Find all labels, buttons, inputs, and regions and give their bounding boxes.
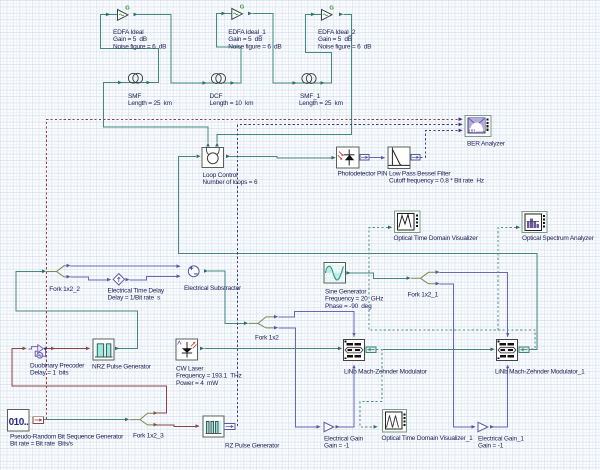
svg-text:Cutoff frequency = 0.8 * Bit r: Cutoff frequency = 0.8 * Bit rate Hz — [389, 178, 484, 185]
port Sine Generator out — [347, 271, 351, 275]
NRZ Pulse Generator — [93, 339, 114, 360]
svg-text:LiNb Mach-Zehnder Modulator_1: LiNb Mach-Zehnder Modulator_1 — [495, 369, 585, 376]
Optical Time Domain Visualizer_1 — [383, 410, 407, 433]
port Subtractor in1 — [177, 264, 181, 268]
svg-text:NRZ Pulse Generator: NRZ Pulse Generator — [92, 364, 152, 371]
port OTDV in — [388, 226, 392, 230]
Photodetector PIN — [337, 147, 360, 168]
svg-text:Pseudo-Random Bit Sequence Gen: Pseudo-Random Bit Sequence Generator — [10, 434, 124, 441]
svg-text:Noise figure = 6 dB: Noise figure = 6 dB — [318, 43, 371, 50]
port Subtractor out — [204, 269, 208, 273]
wire SMF1 output to EDFA2 input — [306, 15, 332, 84]
wire MZM_1 output to Loop Control input — [179, 157, 538, 350]
svg-text:Gain = -1: Gain = -1 — [324, 443, 350, 450]
svg-text:Frequency = 193.1 THz: Frequency = 193.1 THz — [176, 373, 242, 380]
svg-text:SMF: SMF — [128, 93, 141, 100]
svg-text:Photodetector PIN: Photodetector PIN — [338, 171, 388, 178]
dashed wire Optical Time Domain Visualizer to Optical Spectrum Analyzer — [369, 228, 535, 349]
port BER in2 — [459, 123, 463, 127]
port Fork1x2 out1 — [274, 315, 278, 319]
CW Laser — [176, 339, 198, 360]
svg-text:Gain = 5 dB: Gain = 5 dB — [113, 36, 147, 43]
Optical Time Domain Visualizer — [395, 211, 421, 233]
svg-text:Electrical Time Delay: Electrical Time Delay — [108, 288, 165, 295]
svg-text:Low Pass Bessel Filter: Low Pass Bessel Filter — [389, 171, 451, 178]
port Fork1x2_2 out1 — [67, 264, 71, 268]
RZ output pipe — [224, 424, 235, 430]
Sine Generator — [324, 263, 346, 284]
port Fork1x2_2 in — [42, 270, 46, 274]
dashed wire PRBS output to BER Analyzer input 1 — [47, 119, 460, 419]
port OSA in — [516, 226, 520, 230]
wire Fork1x2 top out to MZM1 top electrode — [279, 312, 355, 338]
port EDFA out — [134, 13, 138, 17]
port EDFA1 out — [248, 12, 252, 16]
Electrical Time Delay — [113, 274, 124, 285]
port Loop Control top1 — [206, 143, 210, 147]
Low Pass Bessel Filter — [388, 147, 410, 168]
port MZM1 optical in — [338, 347, 342, 351]
Loop Control — [202, 148, 224, 168]
port EDFA in — [106, 13, 110, 17]
RZ Pulse Generator — [203, 416, 224, 437]
wire Electrical Subtractor output to Fork 1x2 input — [208, 271, 245, 323]
port EDFA2 out — [339, 13, 343, 17]
port DCF in — [203, 81, 207, 85]
port Fork1x2_3 out1 — [154, 411, 158, 415]
svg-text:Number of loops = 6: Number of loops = 6 — [203, 179, 258, 186]
port DCF out — [231, 81, 235, 85]
svg-text:Loop Control: Loop Control — [203, 172, 239, 179]
port Duobinary Precoder in — [23, 347, 27, 351]
MZM_1 output pipe — [519, 347, 529, 353]
svg-text:RZ Pulse Generator: RZ Pulse Generator — [225, 443, 280, 450]
wire Electrical Gain output to MZM1 bottom electrode — [339, 366, 355, 427]
port Electrical Gain in — [317, 425, 321, 429]
LiNb Mach-Zehnder Modulator — [344, 340, 365, 361]
svg-text:Duobinary Precoder: Duobinary Precoder — [30, 363, 85, 370]
svg-text:Length = 10 km: Length = 10 km — [210, 100, 254, 107]
port EDFA1 in — [222, 12, 226, 16]
svg-text:Bit rate = Bit rate Bits/s: Bit rate = Bit rate Bits/s — [10, 441, 74, 448]
port Time Delay in — [107, 278, 111, 282]
wire Fork1x2_3 bottom out to RZ Pulse Generator input — [156, 425, 197, 426]
Fork 1x2_1 icon — [411, 272, 436, 284]
svg-text:Fork 1x2_1: Fork 1x2_1 — [408, 292, 439, 299]
svg-text:Delay = 1 bits: Delay = 1 bits — [30, 370, 69, 377]
BER Analyzer — [465, 116, 491, 137]
svg-text:010..: 010.. — [9, 417, 29, 428]
port MZM1 top electrode — [352, 333, 355, 337]
port NRZ out — [115, 347, 119, 351]
dashed wire MZM1 output to Optical Time Domain Visualizer_1 — [360, 350, 382, 427]
wire MZM1 output to MZM_1 input — [383, 349, 491, 351]
wire Time Delay output to Subtractor input 2 — [130, 276, 177, 279]
port Fork1x2 out2 — [274, 326, 278, 330]
port Loop Control out — [226, 155, 230, 159]
svg-text:EDFA Ideal_1: EDFA Ideal_1 — [228, 29, 266, 36]
svg-text:G: G — [240, 4, 245, 10]
PRBS output pipe — [33, 417, 44, 424]
port Electrical Gain_1 out — [490, 425, 494, 429]
svg-text:Electrical Gain: Electrical Gain — [324, 436, 363, 443]
svg-text:Gain = 5 dB: Gain = 5 dB — [228, 36, 262, 43]
dashed wire Bessel Filter output to BER Analyzer input 3 — [421, 131, 460, 158]
Duobinary Precoder — [29, 345, 47, 358]
port NRZ in — [86, 347, 90, 351]
port Subtractor in2 — [177, 274, 181, 278]
wire SMF output to EDFA input — [101, 15, 159, 83]
wire Duobinary Precoder output to NRZ input — [44, 348, 87, 350]
svg-text:BER Analyzer: BER Analyzer — [467, 141, 506, 148]
svg-text:SMF_1: SMF_1 — [300, 93, 321, 100]
port MZM_1 bottom electrode — [506, 365, 509, 369]
Electrical Subtractor — [188, 266, 199, 277]
Fork 1x2 icon — [249, 317, 275, 328]
dashed wire branch to Optical Spectrum Analyzer — [498, 228, 516, 331]
port BER in1 — [459, 117, 463, 121]
port SMF in — [118, 81, 122, 85]
svg-text:EDFA Ideal: EDFA Ideal — [113, 29, 144, 36]
port Fork1x2_3 out2 — [154, 423, 158, 427]
wire Fork1x2_3 top out to Duobinary Precoder input — [12, 349, 167, 414]
wire Electrical Gain_1 output to MZM_1 bottom electrode — [493, 366, 508, 427]
Optical Spectrum Analyzer — [522, 212, 547, 233]
svg-text:EDFA Ideal_2: EDFA Ideal_2 — [318, 29, 356, 36]
wire Photodetector output to Bessel Filter input — [369, 157, 382, 159]
port Fork1x2_2 out2 — [67, 275, 71, 279]
svg-text:G: G — [329, 5, 334, 11]
svg-text:Noise figure = 6 dB: Noise figure = 6 dB — [113, 43, 166, 50]
port Duobinary Precoder out — [51, 347, 55, 351]
port BER in3 — [459, 129, 463, 133]
DCF fiber coil — [211, 74, 225, 84]
svg-text:Fork 1x2_3: Fork 1x2_3 — [133, 433, 164, 440]
svg-text:G: G — [125, 5, 130, 11]
port MZM_1 optical in — [491, 348, 495, 352]
Electrical Gain_1 — [478, 422, 488, 431]
wire EDFA output to DCF input — [138, 15, 233, 84]
port Fork1x2_1 out1 — [436, 270, 440, 274]
Electrical Gain — [324, 422, 334, 431]
wire PRBS output to Fork 1x2_3 input — [44, 419, 126, 421]
Fork 1x2_2 icon — [47, 266, 67, 277]
svg-text:Length = 25 km: Length = 25 km — [299, 100, 343, 107]
port Electrical Gain_1 in — [472, 425, 476, 429]
port CW Laser out — [200, 347, 204, 351]
wire Sine Generator to Fork 1x2_1 input — [346, 273, 407, 278]
svg-text:Gain = -1: Gain = -1 — [478, 443, 504, 450]
svg-text:Frequency = 20 GHz: Frequency = 20 GHz — [325, 296, 383, 303]
port Fork1x2_3 in — [125, 418, 129, 422]
svg-text:LiNb Mach-Zehnder Modulator: LiNb Mach-Zehnder Modulator — [344, 369, 428, 376]
port Time Delay out — [126, 278, 130, 282]
Bessel Filter output pipe — [411, 155, 420, 161]
wire loop-top1 to SMF input — [104, 83, 209, 143]
Pseudo-Random Bit Sequence Generator — [8, 410, 30, 432]
wire CW Laser to MZM1 optical input — [205, 348, 339, 350]
Fork 1x2_3 icon — [130, 413, 154, 425]
SMF_1 fiber coil — [302, 74, 316, 84]
port Fork1x2_1 in — [407, 276, 411, 280]
svg-text:Electrical Gain_1: Electrical Gain_1 — [478, 436, 524, 443]
port Fork1x2_1 out2 — [436, 282, 440, 286]
wire Fork1x2_2 top out to Subtractor input 1 — [71, 265, 177, 267]
port OTDV_1 in — [374, 425, 378, 429]
SMF fiber coil — [128, 73, 142, 83]
port EDFA2 in — [311, 13, 315, 17]
wire Fork1x2_1 top out to MZM_1 top electrode — [439, 272, 507, 337]
LiNb Mach-Zehnder Modulator_1 — [497, 340, 518, 361]
dashed wire RZ Pulse Generator output to BER Analyzer input 2 — [238, 125, 459, 426]
svg-text:Gain = 5 dB: Gain = 5 dB — [318, 36, 352, 43]
wire Fork1x2_1 bottom out to Electrical Gain_1 input — [439, 284, 472, 427]
port Electrical Gain out — [336, 425, 340, 429]
svg-text:Noise figure = 6 dB: Noise figure = 6 dB — [228, 43, 281, 50]
wire EDFA1 output to SMF1 input — [253, 14, 323, 84]
svg-text:Electrical Substractor: Electrical Substractor — [184, 285, 242, 292]
svg-text:Optical Time Domain Visualizer: Optical Time Domain Visualizer — [394, 235, 479, 242]
MZM1 output pipe — [366, 347, 376, 353]
port MZM1 bottom electrode — [352, 365, 355, 369]
wire Loop Control output to Photodetector input — [230, 157, 333, 158]
svg-text:Phase = -90 deg: Phase = -90 deg — [325, 303, 372, 310]
port Bessel Filter in — [381, 156, 385, 160]
port SMF1 out — [321, 81, 325, 85]
svg-text:Length = 25 km: Length = 25 km — [128, 100, 172, 107]
port Fork1x2 in — [244, 321, 248, 325]
wire Fork1x2_2 bottom out to Time Delay input — [71, 277, 108, 280]
port SMF out — [147, 81, 151, 85]
port Photodetector in — [332, 156, 336, 160]
svg-text:Fork 1x2: Fork 1x2 — [255, 335, 279, 342]
EDFA Ideal_2 (amplifier triangle) — [322, 5, 335, 20]
port MZM_1 top electrode — [506, 333, 509, 337]
wire Fork1x2 bottom out to Electrical Gain input — [279, 328, 318, 427]
svg-text:Power = 4 mW: Power = 4 mW — [176, 380, 219, 387]
port SMF1 in — [293, 81, 297, 85]
port Loop Control in — [197, 155, 201, 159]
svg-text:Fork 1x2_2: Fork 1x2_2 — [49, 286, 80, 293]
svg-text:Sine Generator: Sine Generator — [325, 289, 367, 296]
svg-text:Optical Time Domain Visualizer: Optical Time Domain Visualizer_1 — [382, 435, 474, 442]
svg-text:DCF: DCF — [210, 93, 223, 100]
svg-text:Optical Spectrum Analyzer: Optical Spectrum Analyzer — [522, 235, 595, 242]
wire NRZ output to Fork 1x2_2 input — [16, 272, 137, 349]
svg-text:CW Laser: CW Laser — [176, 366, 204, 373]
port RZ in — [196, 424, 200, 428]
EDFA Ideal_1 (amplifier triangle) — [232, 4, 245, 19]
EDFA Ideal (amplifier triangle) — [118, 5, 131, 20]
wire EDFA2 output to loop-top2 — [217, 15, 352, 143]
svg-text:Delay = 1/Bit rate s: Delay = 1/Bit rate s — [108, 295, 162, 302]
Photodetector PIN output pipe — [360, 155, 369, 161]
port Loop Control top2 — [215, 143, 219, 147]
wire DCF output to EDFA1 input — [217, 14, 242, 84]
